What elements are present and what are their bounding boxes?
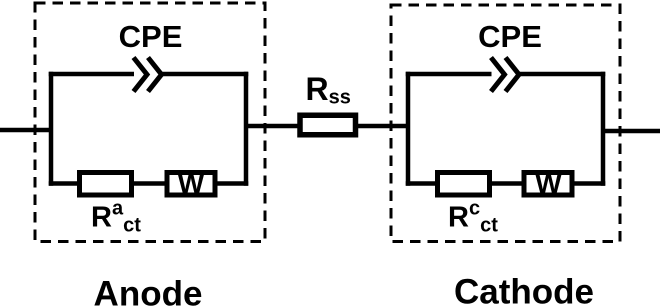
resistor Rc_ct: [438, 173, 490, 196]
wire cathode top branch right: [519, 72, 605, 77]
svg-text:Cathode: Cathode: [454, 273, 594, 307]
CPE U2 chevron 2: [506, 58, 520, 92]
wire cathode bottom branch mid: [490, 181, 525, 186]
wire anode top branch left: [49, 72, 134, 77]
wire cathode top branch left: [406, 72, 492, 77]
svg-text:Ract: Ract: [91, 198, 141, 237]
svg-text:CPE: CPE: [478, 19, 542, 54]
wire right lead: [603, 129, 660, 134]
svg-text:W: W: [178, 168, 205, 199]
CPE U2 chevron 1: [491, 58, 505, 92]
wire anode right bus: [244, 72, 249, 186]
svg-text:Anode: Anode: [94, 275, 203, 307]
svg-text:W: W: [535, 168, 562, 199]
wire left lead: [0, 128, 53, 133]
svg-text:Rss: Rss: [306, 71, 351, 109]
wire cathode left bus: [406, 72, 411, 186]
anode dashed box: [35, 3, 265, 242]
wire cathode bottom branch right: [572, 181, 605, 186]
CPE U1 chevron 1: [134, 58, 148, 92]
svg-text:Rcct: Rcct: [448, 198, 498, 237]
wire anode bottom branch right: [215, 181, 248, 186]
wire anode bottom branch mid: [132, 181, 168, 186]
wire anode to Rss: [246, 124, 300, 129]
CPE U1 chevron 2: [148, 58, 162, 92]
cathode dashed box: [391, 5, 620, 242]
warburg W2 box: [524, 173, 572, 196]
wire anode bottom branch left: [49, 181, 80, 186]
wire anode left bus: [49, 72, 54, 186]
resistor Ra_ct: [80, 173, 132, 196]
svg-text:CPE: CPE: [119, 19, 183, 54]
wire anode top branch right: [162, 72, 249, 77]
wire cathode bottom branch left: [406, 181, 438, 186]
resistor Rss: [300, 115, 356, 135]
wire Rss to cathode: [356, 124, 411, 129]
warburg W1 box: [167, 173, 215, 196]
wire cathode right bus: [601, 72, 606, 186]
